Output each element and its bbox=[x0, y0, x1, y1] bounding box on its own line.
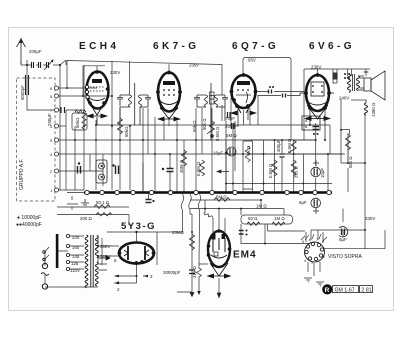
svg-text:0.5M Ω: 0.5M Ω bbox=[215, 126, 220, 141]
svg-text:6K7-G: 6K7-G bbox=[153, 41, 199, 52]
svg-text:6V6-G: 6V6-G bbox=[309, 41, 355, 52]
svg-text:● 10000pF: ● 10000pF bbox=[17, 215, 41, 221]
svg-text:5000pF: 5000pF bbox=[20, 85, 25, 100]
svg-text:7: 7 bbox=[316, 238, 318, 242]
svg-text:5k Ω: 5k Ω bbox=[246, 145, 251, 155]
svg-text:1M Ω: 1M Ω bbox=[256, 204, 267, 209]
svg-text:235v: 235v bbox=[189, 63, 199, 68]
svg-text:1M Ω: 1M Ω bbox=[274, 216, 285, 221]
svg-text:GRUPPO A.F.: GRUPPO A.F. bbox=[19, 159, 25, 190]
svg-text:50 1 Ω: 50 1 Ω bbox=[96, 200, 110, 205]
svg-text:8: 8 bbox=[322, 240, 324, 244]
svg-text:GM 1-67: GM 1-67 bbox=[335, 287, 355, 293]
svg-text:30000pF: 30000pF bbox=[163, 270, 181, 275]
svg-text:200 Ω: 200 Ω bbox=[80, 216, 93, 221]
svg-text:145: 145 bbox=[72, 254, 80, 259]
svg-text:50k Ω: 50k Ω bbox=[202, 118, 207, 130]
svg-text:EM4: EM4 bbox=[233, 250, 257, 261]
svg-text:315 Ω: 315 Ω bbox=[192, 265, 197, 278]
svg-text:10μF: 10μF bbox=[320, 168, 325, 178]
svg-text:1350 Ω: 1350 Ω bbox=[371, 102, 376, 117]
svg-text:330V: 330V bbox=[365, 216, 375, 221]
svg-text:R: R bbox=[325, 287, 330, 294]
svg-text:110V: 110V bbox=[70, 268, 80, 273]
svg-text:50kΩ: 50kΩ bbox=[124, 126, 129, 137]
svg-text:250μF: 250μF bbox=[47, 113, 52, 126]
svg-text:220: 220 bbox=[72, 235, 80, 240]
svg-text:200pF: 200pF bbox=[225, 124, 238, 129]
svg-text:ECH4: ECH4 bbox=[79, 41, 119, 52]
svg-text:8μF: 8μF bbox=[339, 237, 347, 242]
svg-text:50k Ω: 50k Ω bbox=[348, 156, 353, 168]
svg-text:5Y3-G: 5Y3-G bbox=[121, 221, 156, 232]
svg-text:4: 4 bbox=[304, 259, 306, 263]
svg-text:2 81: 2 81 bbox=[362, 287, 372, 293]
svg-text:0.5M Ω: 0.5M Ω bbox=[268, 163, 273, 178]
svg-text:50 Ω: 50 Ω bbox=[248, 216, 258, 221]
svg-text:3: 3 bbox=[311, 261, 313, 265]
svg-text:23MΩ: 23MΩ bbox=[172, 230, 185, 235]
svg-text:95V: 95V bbox=[248, 58, 256, 63]
svg-text:315 Ω: 315 Ω bbox=[294, 165, 299, 178]
svg-text:5: 5 bbox=[302, 240, 304, 244]
svg-text:1: 1 bbox=[323, 255, 325, 259]
svg-text:6: 6 bbox=[309, 238, 311, 242]
svg-text:16μF ✱: 16μF ✱ bbox=[213, 151, 228, 156]
svg-text:8μF: 8μF bbox=[299, 200, 307, 205]
svg-text:VISTO SOPRA: VISTO SOPRA bbox=[328, 254, 362, 260]
svg-text:50kΩ: 50kΩ bbox=[75, 117, 80, 128]
svg-text:240V: 240V bbox=[339, 96, 349, 101]
svg-text:230V: 230V bbox=[110, 70, 120, 75]
svg-text:5M Ω: 5M Ω bbox=[216, 195, 227, 200]
svg-text:160: 160 bbox=[72, 245, 80, 250]
svg-text:6Q7-G: 6Q7-G bbox=[232, 41, 279, 52]
svg-text:230V: 230V bbox=[311, 65, 321, 70]
svg-text:●●40000pF: ●●40000pF bbox=[16, 222, 42, 228]
svg-text:0.5M Ω: 0.5M Ω bbox=[287, 138, 292, 153]
svg-text:320V: 320V bbox=[100, 254, 110, 259]
svg-text:75pF: 75pF bbox=[225, 116, 235, 121]
svg-text:50k Ω: 50k Ω bbox=[192, 120, 197, 132]
svg-text:30M Ω: 30M Ω bbox=[179, 159, 184, 173]
svg-text:2: 2 bbox=[318, 259, 320, 263]
svg-text:125: 125 bbox=[71, 261, 79, 266]
svg-text:380V: 380V bbox=[100, 244, 110, 249]
svg-text:400μF: 400μF bbox=[276, 139, 281, 152]
svg-text:200μF: 200μF bbox=[29, 49, 42, 54]
svg-text:5M Ω: 5M Ω bbox=[226, 133, 237, 138]
svg-text:0.5M Ω: 0.5M Ω bbox=[196, 161, 201, 176]
